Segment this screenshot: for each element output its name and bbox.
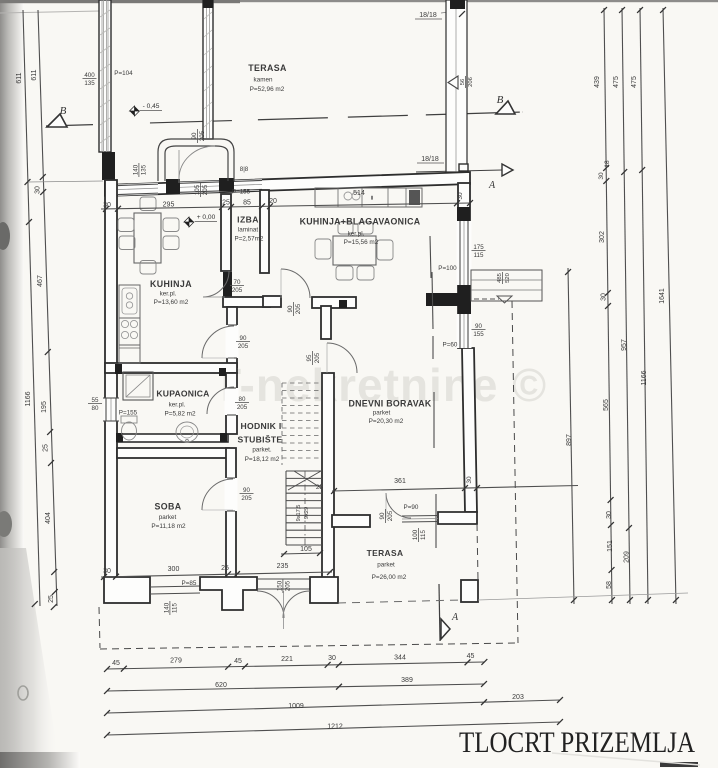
svg-text:parket: parket xyxy=(377,562,395,569)
svg-text:9x29: 9x29 xyxy=(304,507,310,519)
svg-text:565: 565 xyxy=(603,399,610,411)
svg-text:parket: parket xyxy=(159,514,177,521)
svg-text:P=15,56 m2: P=15,56 m2 xyxy=(344,239,379,246)
svg-text:205: 205 xyxy=(314,352,321,363)
svg-text:laminat: laminat xyxy=(238,227,259,234)
svg-text:206: 206 xyxy=(468,77,474,87)
svg-text:115: 115 xyxy=(172,603,179,613)
svg-text:205: 205 xyxy=(387,510,394,521)
svg-text:25: 25 xyxy=(43,444,50,452)
svg-text:150: 150 xyxy=(276,580,283,591)
svg-text:KUHINJA+BLAGAVAONICA: KUHINJA+BLAGAVAONICA xyxy=(300,217,421,227)
svg-text:25: 25 xyxy=(222,200,230,207)
svg-text:205: 205 xyxy=(202,184,209,195)
svg-text:300: 300 xyxy=(168,566,180,573)
svg-text:1166: 1166 xyxy=(25,391,32,406)
svg-text:485: 485 xyxy=(497,273,503,283)
svg-text:361: 361 xyxy=(394,478,406,485)
svg-text:295: 295 xyxy=(163,202,175,209)
svg-text:80: 80 xyxy=(92,405,99,412)
svg-text:205: 205 xyxy=(237,404,248,411)
svg-text:SOBA: SOBA xyxy=(154,502,181,512)
svg-text:115: 115 xyxy=(474,252,484,259)
svg-text:P=11,18 m2: P=11,18 m2 xyxy=(151,523,186,530)
svg-text:105: 105 xyxy=(194,184,201,195)
svg-text:155: 155 xyxy=(473,331,484,338)
svg-text:30: 30 xyxy=(103,202,111,209)
svg-text:90: 90 xyxy=(191,132,198,139)
svg-text:▮: ▮ xyxy=(371,195,374,201)
svg-text:90: 90 xyxy=(379,512,386,519)
svg-text:parket.: parket. xyxy=(252,447,272,454)
svg-text:95: 95 xyxy=(306,354,313,361)
svg-text:400: 400 xyxy=(84,72,95,79)
svg-text:475: 475 xyxy=(613,76,620,88)
svg-text:- 0,45: - 0,45 xyxy=(143,103,160,110)
svg-text:A: A xyxy=(451,612,459,623)
svg-text:9x17,5: 9x17,5 xyxy=(296,505,302,522)
svg-text:P=155: P=155 xyxy=(119,410,138,417)
svg-text:30: 30 xyxy=(35,186,42,194)
svg-text:135: 135 xyxy=(84,80,95,87)
svg-text:897: 897 xyxy=(566,434,573,446)
svg-text:205: 205 xyxy=(199,130,206,141)
svg-text:P=13,60 m2: P=13,60 m2 xyxy=(154,299,189,306)
svg-text:30: 30 xyxy=(328,655,336,662)
svg-text:389: 389 xyxy=(401,677,413,684)
svg-text:30: 30 xyxy=(466,476,473,484)
svg-text:25: 25 xyxy=(48,595,55,603)
svg-text:90: 90 xyxy=(287,305,294,312)
svg-text:1641: 1641 xyxy=(659,288,666,304)
svg-text:80: 80 xyxy=(239,396,246,403)
svg-text:8|8: 8|8 xyxy=(240,166,249,173)
svg-text:P=5,82 m2: P=5,82 m2 xyxy=(164,411,196,418)
svg-text:TERASA: TERASA xyxy=(248,63,287,73)
svg-text:P=2,57m2: P=2,57m2 xyxy=(235,236,264,243)
svg-text:KUPAONICA: KUPAONICA xyxy=(156,389,209,399)
svg-text:30: 30 xyxy=(457,192,464,200)
svg-text:P=85: P=85 xyxy=(182,580,197,587)
svg-text:611: 611 xyxy=(16,72,23,83)
svg-text:kamen: kamen xyxy=(254,77,273,84)
svg-text:90: 90 xyxy=(240,335,247,342)
svg-text:58: 58 xyxy=(606,581,613,589)
svg-text:P=52,96 m2: P=52,96 m2 xyxy=(250,86,285,93)
svg-text:ker.pl.: ker.pl. xyxy=(169,402,186,409)
svg-text:1166: 1166 xyxy=(641,370,648,385)
svg-text:P=20,30 m2: P=20,30 m2 xyxy=(369,418,404,425)
svg-text:30: 30 xyxy=(606,511,613,519)
svg-text:B: B xyxy=(497,94,504,106)
svg-text:205: 205 xyxy=(238,343,249,350)
svg-text:90: 90 xyxy=(243,487,250,494)
svg-text:30: 30 xyxy=(601,293,608,301)
svg-text:205: 205 xyxy=(232,287,243,294)
svg-text:56: 56 xyxy=(460,79,466,85)
svg-text:25: 25 xyxy=(221,565,229,572)
svg-text:175: 175 xyxy=(473,244,484,251)
svg-text:279: 279 xyxy=(170,658,182,665)
svg-text:140: 140 xyxy=(163,602,170,613)
svg-text:HODNIK I: HODNIK I xyxy=(240,421,281,431)
svg-text:P=100: P=100 xyxy=(438,265,457,272)
svg-text:DNEVNI BORAVAK: DNEVNI BORAVAK xyxy=(348,399,431,409)
svg-text:30: 30 xyxy=(103,568,111,575)
svg-text:100: 100 xyxy=(412,529,419,540)
svg-text:45: 45 xyxy=(112,660,120,667)
svg-text:209: 209 xyxy=(624,551,631,563)
svg-text:90: 90 xyxy=(475,323,482,330)
svg-text:55: 55 xyxy=(92,397,99,404)
svg-text:P=26,00 m2: P=26,00 m2 xyxy=(372,574,407,581)
svg-text:105: 105 xyxy=(300,546,312,553)
svg-text:221: 221 xyxy=(281,656,293,663)
svg-text:135: 135 xyxy=(141,164,148,175)
svg-text:STUBIŠTE: STUBIŠTE xyxy=(238,434,283,445)
svg-text:404: 404 xyxy=(45,512,52,524)
svg-text:205: 205 xyxy=(285,580,292,591)
svg-text:235: 235 xyxy=(277,563,289,570)
svg-text:30: 30 xyxy=(598,172,605,180)
svg-text:151: 151 xyxy=(607,540,614,552)
svg-text:205: 205 xyxy=(241,495,252,502)
svg-text:475: 475 xyxy=(631,76,638,88)
svg-text:IZBA: IZBA xyxy=(237,215,259,225)
svg-text:302: 302 xyxy=(599,231,606,243)
svg-text:439: 439 xyxy=(594,76,601,88)
svg-text:467: 467 xyxy=(37,275,44,287)
svg-text:85: 85 xyxy=(243,200,251,207)
svg-text:70: 70 xyxy=(234,279,241,286)
svg-text:205: 205 xyxy=(295,303,302,314)
svg-text:TLOCRT PRIZEMLJA: TLOCRT PRIZEMLJA xyxy=(459,726,695,759)
svg-text:+ 0,00: + 0,00 xyxy=(197,214,216,221)
svg-text:203: 203 xyxy=(512,694,524,701)
svg-text:25: 25 xyxy=(316,484,324,491)
svg-text:1009: 1009 xyxy=(288,703,304,710)
svg-text:1212: 1212 xyxy=(327,724,343,731)
svg-text:514: 514 xyxy=(353,190,365,197)
svg-text:TERASA: TERASA xyxy=(367,548,404,558)
svg-text:620: 620 xyxy=(215,682,227,689)
svg-text:A: A xyxy=(488,180,496,191)
svg-text:ker.pl.: ker.pl. xyxy=(160,291,177,298)
svg-text:KUHINJA: KUHINJA xyxy=(150,279,192,289)
svg-text:140: 140 xyxy=(132,164,139,175)
svg-text:18/18: 18/18 xyxy=(419,12,437,19)
svg-text:18/18: 18/18 xyxy=(421,156,439,163)
svg-text:P=155: P=155 xyxy=(232,189,251,196)
svg-text:18: 18 xyxy=(604,160,611,168)
svg-text:45: 45 xyxy=(467,653,475,660)
svg-text:parket: parket xyxy=(373,410,391,417)
svg-text:P=60: P=60 xyxy=(443,342,458,349)
svg-text:P=90: P=90 xyxy=(404,504,419,511)
svg-text:957: 957 xyxy=(621,339,628,351)
svg-text:344: 344 xyxy=(394,655,406,662)
svg-text:611: 611 xyxy=(31,69,38,80)
svg-text:ker.pl.: ker.pl. xyxy=(348,231,365,238)
svg-text:115: 115 xyxy=(420,530,427,540)
svg-text:45: 45 xyxy=(234,658,242,665)
svg-text:520: 520 xyxy=(505,273,511,283)
svg-text:20: 20 xyxy=(269,198,277,205)
svg-text:195: 195 xyxy=(41,401,48,413)
svg-text:P=18,12 m2: P=18,12 m2 xyxy=(245,456,280,463)
svg-text:P=104: P=104 xyxy=(114,70,133,77)
